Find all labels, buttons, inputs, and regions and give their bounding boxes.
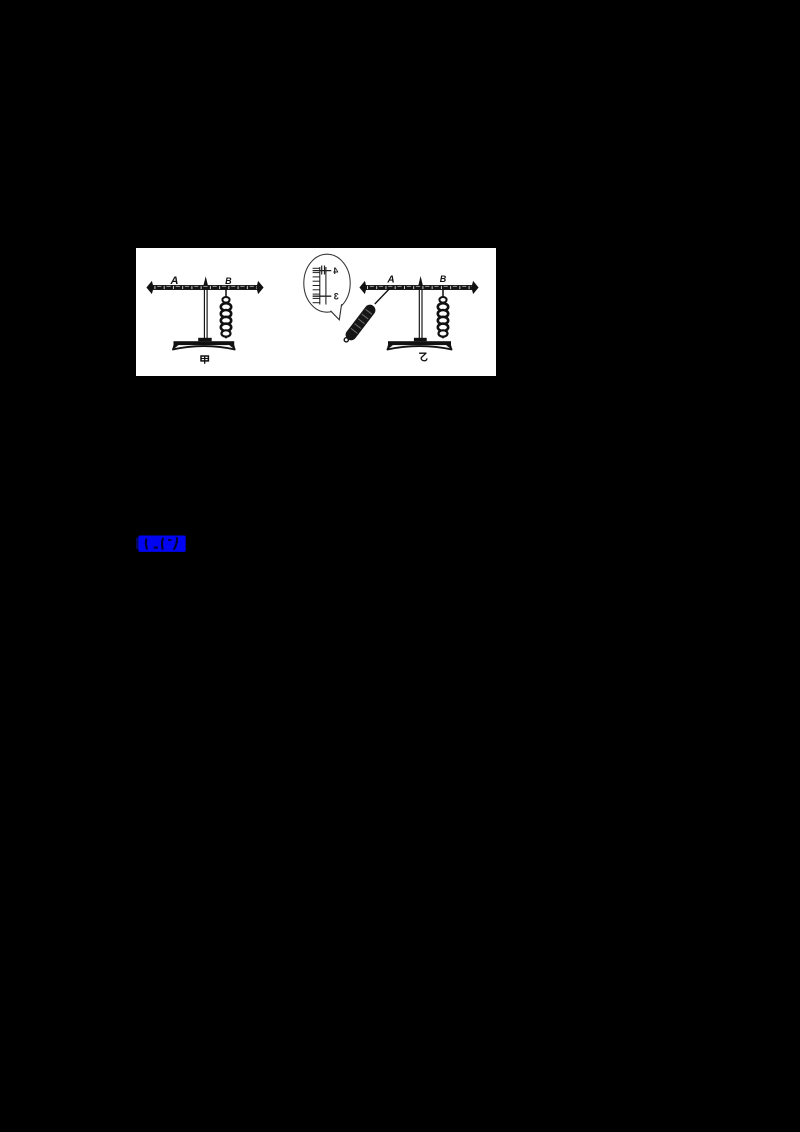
pivot tip jia [203, 276, 208, 285]
svg-text:A: A [386, 275, 394, 286]
svg-text:A: A [170, 275, 179, 287]
lever ruler jia [152, 286, 258, 290]
spring scale body yi [343, 302, 377, 342]
pole collar jia [198, 338, 212, 342]
dark glyph gaps [146, 537, 177, 550]
bubble ellipse [304, 254, 350, 312]
weight bottom tip jia [223, 336, 229, 339]
base plate yi [388, 341, 451, 345]
base plate jia [174, 341, 235, 345]
blue highlight blob [138, 536, 185, 552]
hook line at B jia [225, 290, 227, 298]
major mark lines in bubble [313, 271, 332, 297]
stand pole jia [204, 290, 207, 339]
scale rod in bubble [320, 267, 326, 305]
weights stack yi [438, 297, 448, 337]
label jia (drawn glyph) [201, 356, 208, 364]
spring scale string yi [375, 289, 389, 304]
left arrow tip yi [359, 281, 366, 294]
hook line at B yi [442, 290, 444, 298]
right arrow tip jia [256, 281, 263, 294]
svg-text:4: 4 [333, 266, 338, 276]
bubble tail [331, 304, 342, 320]
left arrow tip jia [146, 281, 153, 294]
blue answer marker (drawn) [135, 534, 189, 554]
stand pole yi [419, 290, 422, 339]
weights stack jia [221, 297, 231, 337]
label yi (drawn glyph) [420, 353, 427, 361]
pointer in bubble [322, 266, 325, 275]
lever ruler yi [365, 286, 473, 290]
base foot curve yi [387, 346, 452, 350]
base foot curve jia [172, 346, 235, 350]
svg-text:3: 3 [334, 292, 339, 302]
svg-text:B: B [440, 274, 447, 284]
pole collar yi [414, 338, 427, 342]
pivot tip yi [418, 276, 423, 286]
svg-text:B: B [225, 276, 232, 286]
weight bottom tip yi [440, 336, 446, 339]
scale ticks in bubble [313, 268, 320, 302]
figure: lever experiment diagram [136, 248, 496, 376]
right arrow tip yi [471, 281, 478, 294]
spring scale hook yi [344, 338, 348, 342]
